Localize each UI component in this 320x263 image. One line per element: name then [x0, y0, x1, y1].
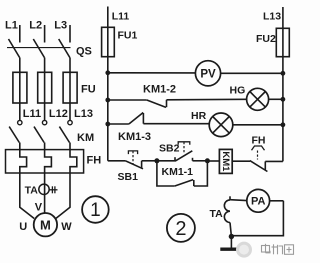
svg-text:FH: FH: [252, 134, 266, 146]
svg-text:PV: PV: [200, 68, 216, 80]
svg-text:L2: L2: [29, 19, 42, 31]
svg-text:L13: L13: [263, 10, 281, 22]
svg-text:KM1-1: KM1-1: [162, 166, 194, 178]
svg-text:W: W: [61, 221, 72, 233]
svg-text:HR: HR: [191, 110, 207, 122]
svg-text:L13: L13: [74, 108, 93, 120]
svg-text:1: 1: [90, 200, 101, 221]
svg-text:V: V: [35, 202, 43, 214]
svg-text:KM: KM: [77, 132, 94, 144]
svg-text:KM1-2: KM1-2: [143, 83, 176, 95]
svg-text:L1: L1: [5, 19, 18, 31]
svg-text:2: 2: [175, 218, 186, 240]
svg-text:PA: PA: [251, 196, 266, 208]
svg-text:HG: HG: [230, 84, 246, 96]
svg-text:L11: L11: [23, 108, 41, 120]
svg-text:L12: L12: [49, 108, 68, 120]
svg-text:FU2: FU2: [256, 33, 276, 45]
svg-text:KM1: KM1: [220, 151, 231, 172]
svg-text:U: U: [19, 221, 27, 233]
svg-text:TA: TA: [25, 184, 39, 196]
svg-text:SB1: SB1: [118, 171, 139, 183]
svg-text:KM1-3: KM1-3: [118, 131, 151, 143]
svg-text:SB2: SB2: [159, 142, 180, 154]
svg-text:TA: TA: [210, 208, 224, 220]
svg-text:FH: FH: [87, 154, 102, 166]
svg-text:FU1: FU1: [118, 29, 138, 41]
svg-text:L3: L3: [54, 19, 67, 31]
svg-text:M: M: [40, 217, 51, 232]
svg-text:L11: L11: [112, 10, 130, 22]
svg-text:QS: QS: [76, 45, 92, 57]
svg-text:FU: FU: [81, 83, 96, 95]
